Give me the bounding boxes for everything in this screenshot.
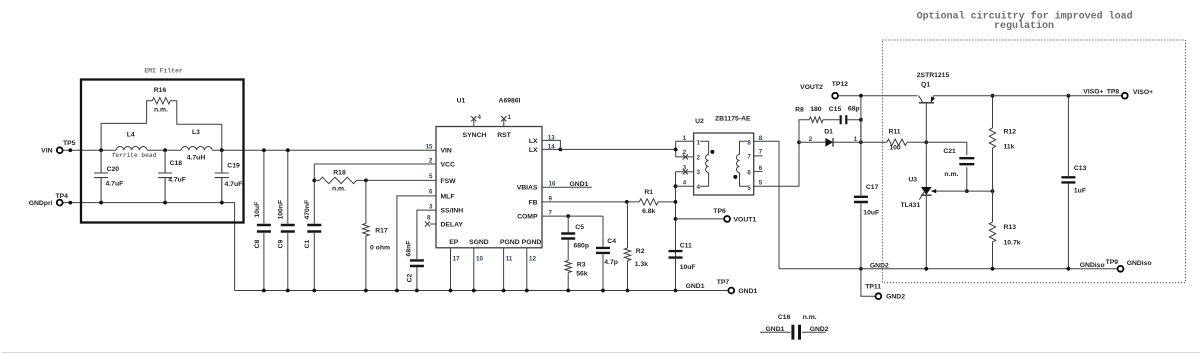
resistor R1 6.8k (639, 189, 675, 215)
svg-text:2: 2 (697, 154, 701, 161)
svg-text:8: 8 (747, 139, 751, 146)
svg-text:C21: C21 (943, 148, 956, 155)
capacitor C5 680p (561, 216, 589, 260)
svg-text:6: 6 (747, 169, 751, 176)
svg-text:L4: L4 (127, 132, 135, 139)
node COMP wire pin 7 (542, 210, 603, 219)
svg-text:GND1: GND1 (766, 326, 785, 333)
capacitor C2 68nF (405, 241, 424, 293)
label optional circuitry title (917, 11, 1133, 33)
svg-text:L3: L3 (192, 129, 200, 136)
svg-text:R17: R17 (375, 227, 388, 234)
svg-text:GND2: GND2 (886, 294, 905, 301)
node FSW wire (364, 179, 436, 183)
svg-text:FB: FB (528, 199, 537, 206)
U1 right pin names (517, 138, 538, 221)
svg-text:TP9: TP9 (1106, 259, 1119, 266)
svg-text:n.m.: n.m. (154, 107, 168, 114)
svg-text:12: 12 (529, 255, 536, 262)
svg-text:LX: LX (529, 138, 538, 145)
capacitor C19 4.7uF (215, 150, 242, 204)
svg-text:1: 1 (683, 135, 687, 142)
transistor Q1 2STR1215 (917, 72, 950, 142)
svg-text:5: 5 (759, 180, 763, 187)
svg-text:GND1: GND1 (570, 181, 589, 188)
svg-text:GND1: GND1 (738, 288, 757, 295)
svg-text:EP: EP (449, 239, 459, 246)
resistor R18 n.m. (314, 169, 366, 192)
wire PGND pin 11 to ground (502, 248, 513, 293)
svg-text:R11: R11 (888, 129, 900, 136)
svg-text:17: 17 (453, 255, 460, 262)
svg-text:4: 4 (478, 114, 482, 121)
svg-text:4.7uF: 4.7uF (225, 181, 243, 188)
ground GND2 rail (779, 262, 1117, 269)
wire U2 pin 1 stub (676, 135, 694, 142)
svg-text:16: 16 (549, 181, 556, 188)
diode D1 (799, 129, 863, 147)
svg-text:TL431: TL431 (900, 202, 920, 209)
svg-text:C5: C5 (575, 224, 584, 231)
svg-text:COMP: COMP (517, 214, 538, 221)
svg-text:SYNCH: SYNCH (463, 132, 487, 139)
svg-text:GND1: GND1 (686, 283, 705, 290)
svg-text:8: 8 (759, 135, 763, 142)
svg-text:1: 1 (697, 139, 701, 146)
pin DELAY n.c. X mark (425, 221, 436, 226)
svg-text:GNDiso: GNDiso (1080, 262, 1105, 269)
svg-text:n.m.: n.m. (944, 171, 958, 178)
transformer U2 secondary winding (733, 141, 747, 186)
svg-text:VCC: VCC (441, 161, 455, 168)
node VCC wire (314, 163, 436, 165)
U1 bottom pin names EP SGND PGND PGND (449, 239, 541, 246)
svg-text:4: 4 (697, 184, 701, 191)
capacitor C16 n.m. between GND1 and GND2 (760, 314, 829, 340)
op-amp U1 A6986I regulator box (436, 98, 542, 248)
svg-text:1uF: 1uF (1074, 188, 1086, 195)
svg-text:ZB1175-AE: ZB1175-AE (715, 115, 751, 122)
capacitor C9 100nF (278, 148, 295, 292)
capacitor C20 4.7uF (94, 150, 123, 204)
svg-text:TP7: TP7 (717, 279, 730, 286)
svg-text:LX: LX (529, 147, 538, 154)
capacitor C15 68p snubber (829, 106, 863, 143)
svg-text:2STR1215: 2STR1215 (917, 72, 950, 79)
pin RST (1, n.c.) (497, 114, 511, 139)
svg-text:VBIAS: VBIAS (517, 185, 538, 192)
svg-text:10: 10 (476, 255, 483, 262)
svg-text:56k: 56k (576, 270, 588, 277)
wire U2 pin 6 stub (754, 165, 763, 172)
svg-text:10.7k: 10.7k (1004, 239, 1021, 246)
wire EP pin 17 to ground (449, 248, 461, 293)
svg-text:4: 4 (683, 179, 687, 186)
resistor R8 180 snubber (795, 106, 839, 142)
label GND1 net at rail end (686, 283, 705, 290)
svg-text:11k: 11k (1004, 143, 1015, 150)
resistor R13 10.7k (989, 191, 1020, 271)
svg-text:TP6: TP6 (713, 208, 726, 215)
svg-text:3: 3 (683, 164, 687, 171)
svg-text:R12: R12 (1004, 128, 1017, 135)
svg-text:VIN: VIN (41, 148, 52, 155)
svg-text:C20: C20 (107, 166, 120, 173)
testpoint TP12 VOUT2 (800, 81, 848, 98)
svg-text:C4: C4 (607, 238, 616, 245)
transformer U2 primary winding (700, 141, 714, 186)
svg-text:VISO+: VISO+ (1083, 89, 1103, 96)
svg-text:0 ohm: 0 ohm (370, 244, 390, 251)
svg-text:6: 6 (759, 165, 763, 172)
capacitor C21 n.m. (926, 142, 974, 193)
testpoint TP6 VOUT1 (713, 208, 756, 223)
node VISO+ rail (934, 89, 1122, 96)
svg-text:R18: R18 (333, 169, 346, 176)
optional circuitry dashed box (882, 40, 1185, 283)
testpoint TP8 VISO+ (1122, 89, 1153, 99)
svg-text:C11: C11 (680, 243, 692, 250)
svg-text:R13: R13 (1004, 224, 1017, 231)
svg-text:regulation: regulation (994, 20, 1054, 32)
testpoint TP5 (41, 140, 76, 155)
testpoint TP9 GNDiso (1118, 260, 1152, 271)
svg-text:EMI Filter: EMI Filter (144, 67, 183, 74)
wire U2 pin 4 stub (676, 179, 694, 186)
wire U2 pin 8 stub to GND2 (754, 135, 779, 269)
resistor R17 0 ohm (363, 180, 390, 292)
svg-text:C17: C17 (866, 184, 879, 191)
U2 inside pin numbers (697, 139, 752, 192)
svg-text:ferrite bead: ferrite bead (112, 152, 157, 159)
svg-text:MLF: MLF (441, 193, 455, 200)
svg-text:1: 1 (508, 114, 512, 121)
svg-text:7: 7 (747, 153, 751, 160)
wire reference node to divider (967, 189, 995, 193)
page frame bottom edge (2, 352, 1200, 354)
svg-text:U3: U3 (908, 177, 917, 184)
svg-text:3: 3 (697, 169, 701, 176)
U1 left pin numbers 15 2 5 6 3 8 (426, 143, 433, 221)
capacitor C1 470nF (304, 164, 321, 292)
svg-text:VOUT2: VOUT2 (800, 84, 823, 91)
U1 left pin names (441, 148, 464, 229)
svg-text:A6986I: A6986I (499, 98, 521, 105)
svg-text:11: 11 (506, 255, 513, 262)
ground GND1 rail (235, 290, 729, 292)
svg-text:7: 7 (759, 148, 763, 155)
svg-text:4.7uH: 4.7uH (187, 155, 206, 162)
node GNDpri: ground wire (63, 203, 235, 291)
svg-text:TP12: TP12 (832, 81, 848, 88)
node VIN: main input wire (63, 149, 436, 151)
testpoint TP4 (29, 193, 72, 207)
svg-text:C8: C8 (254, 239, 261, 248)
resistor R16 (n.m.) bypass loop (101, 87, 222, 150)
svg-text:7: 7 (549, 210, 553, 217)
node LX/VOUT1 vertical bus (674, 141, 678, 292)
capacitor C11 10uF (669, 243, 696, 271)
inductor L4 ferrite bead (112, 132, 157, 159)
pin VBIAS 16 stub to GND1 (542, 181, 592, 188)
capacitor C4 4.7p (596, 216, 618, 292)
svg-text:R3: R3 (577, 262, 586, 269)
wire MLF to ground (395, 196, 436, 293)
resistor R11 100 (861, 129, 928, 152)
capacitor C17 10uF (854, 96, 879, 271)
testpoint TP11 GND2 (861, 269, 905, 301)
svg-text:4.7uF: 4.7uF (106, 181, 124, 188)
svg-text:180: 180 (810, 106, 822, 113)
svg-text:1: 1 (854, 136, 858, 143)
wire SS/INH branch (417, 210, 436, 259)
svg-text:n.m.: n.m. (332, 186, 346, 193)
svg-text:100nF: 100nF (278, 200, 285, 220)
svg-text:VOUT1: VOUT1 (734, 216, 757, 223)
wire VOUT1 to TP6 (676, 218, 725, 220)
svg-text:DELAY: DELAY (441, 221, 464, 228)
svg-text:C19: C19 (227, 163, 240, 170)
wire U2 pin 2 stub (n.c. X) (676, 149, 694, 159)
wire U2 pin 7 stub (754, 148, 763, 156)
svg-text:D1: D1 (824, 129, 833, 136)
svg-text:2: 2 (429, 158, 433, 165)
svg-text:9: 9 (549, 195, 553, 202)
svg-text:15: 15 (426, 143, 433, 150)
svg-text:C16: C16 (778, 314, 791, 321)
svg-text:68nF: 68nF (405, 241, 412, 257)
svg-text:GNDpri: GNDpri (29, 200, 53, 207)
svg-text:FSW: FSW (441, 178, 457, 185)
svg-text:R16: R16 (154, 87, 167, 94)
capacitor C8 10uF (254, 148, 271, 292)
svg-text:5: 5 (429, 173, 433, 180)
svg-text:C18: C18 (170, 160, 183, 167)
svg-text:10uF: 10uF (254, 202, 261, 218)
svg-text:4.7uF: 4.7uF (168, 177, 186, 184)
svg-text:10uF: 10uF (863, 210, 879, 217)
transformer U2 ZB1175-AE box (694, 115, 754, 195)
svg-text:TP8: TP8 (1107, 89, 1120, 96)
node A: junction dots on VIN line in EMI filter (99, 148, 224, 152)
svg-text:100: 100 (889, 145, 901, 152)
wire U2 pin 5 stub riser to D1 (754, 140, 801, 186)
svg-text:PGND: PGND (500, 239, 520, 246)
wire SGND pin 10 to ground (472, 248, 484, 293)
svg-text:GNDiso: GNDiso (1127, 260, 1152, 267)
svg-text:6: 6 (429, 189, 433, 196)
svg-text:RST: RST (497, 132, 511, 139)
svg-text:13: 13 (548, 134, 555, 141)
svg-text:C9: C9 (278, 239, 285, 248)
capacitor C18 4.7uF (158, 150, 186, 204)
svg-text:GND2: GND2 (810, 326, 829, 333)
svg-text:n.m.: n.m. (803, 314, 817, 321)
label GNDiso net (1080, 259, 1119, 269)
svg-text:C1: C1 (304, 239, 311, 248)
svg-text:C13: C13 (1074, 165, 1087, 172)
svg-text:VIN: VIN (441, 148, 452, 155)
svg-text:470nF: 470nF (304, 200, 311, 220)
svg-text:TP4: TP4 (56, 193, 69, 200)
svg-text:2: 2 (683, 149, 687, 156)
resistor R3 56k (565, 261, 588, 293)
svg-text:SS/INH: SS/INH (441, 208, 464, 215)
pin SYNCH (4, n.c.) (463, 114, 487, 139)
svg-text:C2: C2 (406, 273, 413, 282)
wire PGND pin 12 to ground (525, 248, 537, 293)
svg-text:Q1: Q1 (921, 81, 930, 88)
svg-text:U2: U2 (695, 118, 704, 125)
svg-text:6.8k: 6.8k (642, 208, 655, 215)
svg-text:U1: U1 (457, 98, 466, 105)
svg-text:3: 3 (429, 203, 433, 210)
svg-text:5: 5 (747, 185, 751, 192)
wire U2 pin 3 stub (n.c. X) (676, 164, 694, 174)
node FB wire pin 9 (542, 195, 639, 204)
svg-text:14: 14 (548, 144, 555, 151)
svg-text:10uF: 10uF (680, 264, 696, 271)
svg-text:TP5: TP5 (63, 140, 76, 147)
capacitor C13 1uF (1061, 94, 1086, 271)
svg-text:PGND: PGND (522, 239, 542, 246)
svg-text:SGND: SGND (469, 239, 489, 246)
svg-text:4.7p: 4.7p (604, 259, 618, 266)
svg-text:1.3k: 1.3k (635, 261, 648, 268)
resistor R2 1.3k (624, 202, 648, 293)
inductor L3 4.7uH (181, 129, 212, 162)
svg-text:GND2: GND2 (870, 262, 889, 269)
svg-text:8: 8 (427, 215, 431, 222)
wire LX pins 13 14 bracket (542, 134, 676, 151)
svg-text:680p: 680p (574, 243, 590, 250)
svg-text:R1: R1 (644, 189, 653, 196)
wire VOUT2 to Q1 collector (838, 94, 917, 98)
testpoint TP7 GND1 (717, 279, 758, 295)
svg-text:VISO+: VISO+ (1133, 89, 1153, 96)
svg-text:R8: R8 (795, 107, 804, 114)
svg-text:2: 2 (809, 136, 813, 143)
resistor R12 11k (989, 94, 1016, 191)
shunt reference U3 TL431 (900, 142, 966, 270)
svg-text:C15: C15 (829, 106, 842, 113)
svg-text:R2: R2 (636, 248, 645, 255)
EMI filter box (81, 67, 244, 222)
svg-text:TP11: TP11 (865, 284, 881, 291)
svg-text:68p: 68p (848, 106, 860, 113)
